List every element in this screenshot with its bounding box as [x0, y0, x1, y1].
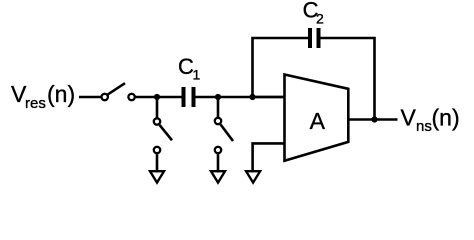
- switch S1: [102, 83, 135, 100]
- wire output: [348, 118, 397, 121]
- switch S3: [215, 118, 233, 153]
- svg-text:1: 1: [193, 67, 201, 83]
- wire input main: [253, 96, 285, 99]
- label Vns(n): [401, 104, 460, 135]
- svg-text:A: A: [310, 108, 326, 134]
- ground: [246, 171, 260, 182]
- node output: [371, 116, 377, 122]
- svg-text:(n): (n): [432, 104, 460, 130]
- wire input: [79, 96, 101, 99]
- label C1: [178, 54, 201, 83]
- wire: [135, 96, 181, 99]
- ground: [211, 171, 225, 182]
- capacitor C2: [310, 28, 319, 48]
- ground: [150, 171, 164, 182]
- wire: [217, 154, 220, 172]
- node B: [215, 94, 221, 100]
- label Vres(n): [11, 81, 75, 112]
- capacitor C1: [184, 87, 194, 107]
- svg-text:res: res: [25, 95, 46, 112]
- label C2: [303, 0, 324, 26]
- node A: [154, 94, 160, 100]
- amplifier U1: [285, 75, 349, 161]
- switch S2: [154, 118, 172, 153]
- wire: [217, 97, 220, 118]
- wire: [196, 96, 285, 99]
- wire amp lower input: [253, 143, 285, 172]
- wire: [156, 97, 159, 118]
- svg-text:ns: ns: [416, 118, 432, 135]
- svg-text:(n): (n): [47, 81, 75, 107]
- svg-text:2: 2: [316, 10, 324, 26]
- wire feedback left: [253, 38, 309, 98]
- svg-text:V: V: [401, 104, 417, 130]
- node C: [249, 94, 255, 100]
- wire: [156, 154, 159, 172]
- wire feedback right: [321, 38, 375, 120]
